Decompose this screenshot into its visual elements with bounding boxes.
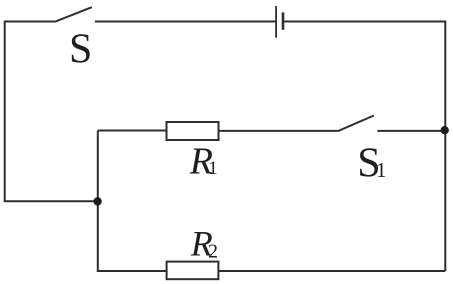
svg-text:1: 1	[376, 158, 387, 182]
svg-text:1: 1	[208, 158, 218, 179]
svg-text:S: S	[69, 26, 92, 72]
svg-text:2: 2	[208, 241, 218, 263]
